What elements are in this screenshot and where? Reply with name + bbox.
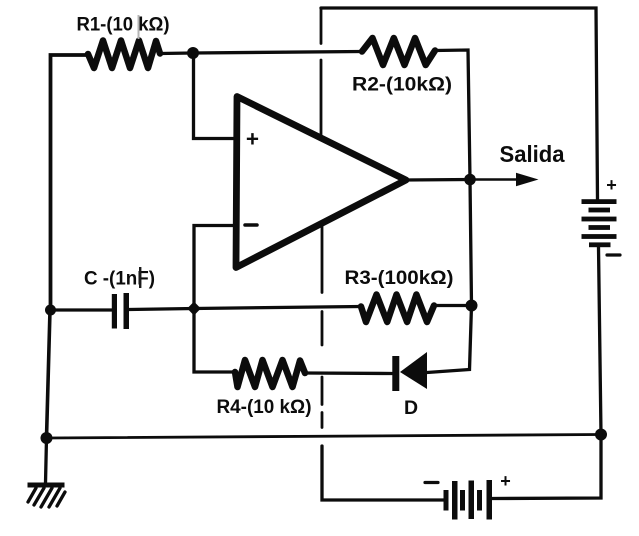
wire: R1 to node A [160,51,193,55]
battery B1 minus label [607,253,620,256]
ground hatching [28,488,65,507]
node B junction dot [187,302,201,316]
ground bar [28,483,65,488]
capacitor C plates [112,293,129,329]
output arrow head [516,173,539,186]
wire: top rail [321,8,598,200]
svg-text:+: + [606,175,617,195]
wire: node A to R2 [193,52,362,54]
battery B2 plates [444,480,493,520]
op-amp minus input label [245,223,257,227]
wire: negative supply from op-amp (dashed crossing) [321,223,324,428]
R3 right node junction dot [466,300,478,312]
scan artifact bar in R1 label [138,15,140,39]
wire: B2 negative to negative supply riser [322,446,444,500]
left rail C node junction dot [45,305,56,316]
svg-text:D: D [404,397,418,419]
resistor R2 [362,38,435,65]
wire: left rail upper + R1 left lead [51,55,89,310]
resistor R3 [361,295,434,323]
battery B2 minus label [425,481,438,484]
svg-text:R3-(100kΩ): R3-(100kΩ) [345,267,454,289]
wire: node B down to R4 [194,309,235,373]
wire: C right lead to node B [129,309,194,310]
op-amp U1 triangle [236,97,406,268]
ground node junction dot [41,432,53,444]
wire: bottom ground rail [47,435,602,439]
wire: R2 right lead down to output node [435,50,470,180]
svg-text:Salida: Salida [500,141,566,167]
svg-text:R1-(10 kΩ): R1-(10 kΩ) [77,14,170,36]
wire: op-amp output lead [404,178,470,182]
wire: left rail lower [47,310,51,438]
node A junction dot [187,47,199,59]
diode D cathode bar [392,356,399,391]
svg-text:+: + [500,471,511,491]
wire: diode to R3 right node [427,306,472,373]
wire: output node down to R3 node [470,180,472,306]
svg-text:R2-(10kΩ): R2-(10kΩ) [352,74,452,96]
svg-text:C -(1nF): C -(1nF) [84,268,155,290]
diode D triangle [400,352,427,389]
output arrow shaft [470,178,519,181]
wire: node A down to non-inverting input [194,53,238,139]
wire: C left lead from left rail [50,308,112,311]
wire: right rail to bottom battery positive [492,435,601,499]
output node junction dot [464,174,476,186]
wire: node B to R3 [194,307,361,309]
scan artifact bar in C label [139,267,141,288]
svg-text:+: + [246,127,259,152]
right rail junction dot [595,429,607,441]
svg-text:R4-(10 kΩ): R4-(10 kΩ) [217,396,312,418]
wire: R4 to diode [305,371,393,375]
wire: B1 negative down right rail [599,247,602,435]
wire: positive supply to op-amp [320,9,323,138]
resistor R1 [88,41,160,69]
wire: R3 to right node [434,304,466,307]
wire: inverting input to node B [194,226,236,309]
resistor R4 [235,360,305,387]
battery B1 plates [582,199,617,247]
wire: ground stem [46,438,47,483]
